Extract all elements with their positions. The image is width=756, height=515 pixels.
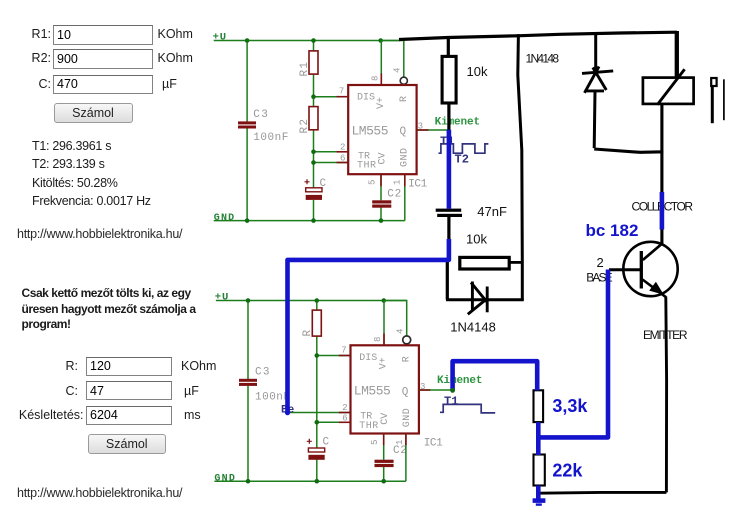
resistor 3.3k body	[534, 390, 544, 422]
input R1 value 10	[53, 25, 153, 45]
svg-text:GND: GND	[400, 148, 411, 167]
label R2	[0, 51, 51, 65]
svg-text:100nF: 100nF	[253, 132, 288, 144]
wire blue node to Be (long trigger wire)	[288, 239, 449, 412]
svg-text:7: 7	[339, 87, 344, 97]
wire +U rail (top circuit)	[214, 40, 400, 42]
input delay value 6204	[86, 406, 172, 425]
junction dot C2-gnd	[379, 218, 384, 223]
resistor R1	[309, 51, 318, 74]
label C	[0, 77, 51, 91]
wire GND rail (top circuit)	[214, 220, 405, 222]
svg-text:LM555: LM555	[352, 124, 389, 139]
relay switch diagonal	[657, 69, 684, 104]
svg-text:C2: C2	[393, 445, 407, 457]
wire pin3 Q output (bottom)	[419, 389, 453, 391]
wire pin4 R with stub (bottom)	[384, 301, 407, 337]
svg-text:GND: GND	[214, 213, 235, 224]
resistor 10k upper	[442, 56, 456, 103]
junction dot R1-R2-DIS	[311, 94, 316, 99]
url 2	[17, 486, 182, 500]
svg-text:5: 5	[370, 440, 380, 445]
svg-text:R1: R1	[299, 62, 311, 77]
wire pin6 THR (bottom)	[317, 421, 351, 423]
junction dot rail-pin8	[378, 38, 383, 43]
capacitor C2 (top)	[372, 200, 391, 207]
wire pin5 CV to C2	[380, 175, 382, 221]
svg-text:7: 7	[341, 346, 346, 356]
resistor 22k body	[534, 455, 545, 486]
wire pin7 DIS (bottom)	[317, 355, 351, 357]
svg-text:CV: CV	[380, 413, 391, 425]
diode D1 1N4148 (freewheel, sketchy)	[582, 67, 613, 93]
svg-text:V+: V+	[378, 357, 389, 369]
junction dot rail-C3	[245, 38, 250, 43]
transistor Q1 circle	[623, 242, 677, 296]
svg-text:DIS: DIS	[357, 93, 375, 104]
wire blue Q1-output to 47nF	[447, 130, 452, 209]
button Szamol 1	[54, 103, 133, 123]
wire pin1 GND down (bottom)	[405, 433, 407, 481]
wire pin2 TR (bottom) from Be	[287, 412, 350, 414]
svg-text:THR: THR	[357, 161, 376, 172]
wire base lead	[609, 268, 641, 271]
svg-text:C: C	[320, 178, 327, 190]
pin4 inversion bubble (top)	[400, 77, 407, 84]
junction dot THR (bottom)	[315, 420, 320, 425]
svg-text:2: 2	[597, 255, 604, 270]
svg-text:C2: C2	[387, 188, 401, 200]
IC pin stubs (maroon) top IC	[337, 74, 429, 187]
svg-text:EMITTER: EMITTER	[643, 328, 688, 342]
resistor R2	[309, 107, 318, 130]
junction dot rail-R1	[311, 38, 316, 43]
unit KOhm	[181, 359, 216, 373]
svg-text:+U: +U	[213, 32, 227, 44]
diode D2 1N4148 (lower, sketchy)	[468, 282, 487, 315]
IC pin stubs (maroon) bottom IC	[339, 334, 430, 446]
svg-text:Kimenet: Kimenet	[435, 117, 481, 129]
wire GND rail (bottom circuit)	[214, 480, 406, 482]
wire pin8 V+	[380, 41, 382, 86]
svg-text:T2: T2	[455, 152, 469, 166]
input R2 value 900	[53, 49, 153, 69]
svg-text:R: R	[399, 96, 410, 102]
svg-text:C3: C3	[255, 367, 270, 379]
wire pin4 R with stub	[381, 41, 404, 78]
label Kesleltetes	[0, 408, 84, 422]
IC2 texts	[354, 353, 413, 432]
svg-text:CV: CV	[378, 153, 389, 165]
wire collector diagonal into transistor	[643, 244, 662, 261]
wire diode1 bottom lead	[593, 91, 597, 148]
svg-text:22k: 22k	[552, 461, 583, 481]
transistor emitter arrow	[649, 282, 664, 295]
op-amp style IC box U2 LM555 (bottom)	[351, 345, 419, 433]
svg-text:1: 1	[393, 180, 403, 185]
wire blue bottom Q to 3.3k	[453, 361, 538, 390]
wire blue 22k to ground	[536, 486, 541, 501]
svg-text:DIS: DIS	[359, 353, 377, 364]
svg-text:4: 4	[395, 329, 405, 334]
svg-text:THR: THR	[359, 421, 378, 432]
resistor 10k lower (horizontal)	[460, 257, 509, 269]
capacitor C3 (bottom)	[239, 379, 257, 386]
url 1	[17, 227, 182, 241]
svg-text:10k: 10k	[466, 232, 487, 247]
capacitor C electrolytic (bottom)	[307, 439, 325, 460]
svg-text:C3: C3	[253, 109, 267, 121]
unit ms	[184, 408, 201, 422]
svg-text:R: R	[302, 330, 314, 337]
op-amp style IC box U1 LM555 (top)	[348, 85, 416, 174]
wire C3 branch vertical (bottom)	[247, 301, 249, 482]
wire blue collector segment	[660, 192, 665, 230]
svg-text:IC1: IC1	[424, 438, 443, 450]
result T2	[32, 157, 105, 171]
wire blue 3.3k-22k segment	[536, 437, 541, 455]
wire pin8 V+ (bottom)	[383, 301, 385, 346]
unit µF	[162, 77, 177, 91]
svg-text:8: 8	[373, 337, 383, 342]
wire blue 3.3k to 22k and to base	[538, 270, 608, 438]
wire pin3 Q output	[417, 129, 448, 131]
svg-text:Kimenet: Kimenet	[437, 375, 483, 387]
junction dot C3-gnd	[245, 218, 250, 223]
svg-text:GND: GND	[402, 408, 413, 427]
svg-text:3,3k: 3,3k	[552, 396, 588, 416]
wire relay to collector (black upper)	[660, 104, 663, 193]
svg-text:GND: GND	[214, 473, 235, 484]
svg-text:bc 182: bc 182	[586, 221, 639, 240]
wire R chain vertical (bottom)	[316, 301, 318, 482]
svg-text:10k: 10k	[467, 64, 488, 79]
svg-text:8: 8	[371, 76, 381, 81]
capacitor C electrolytic (top)	[305, 179, 323, 200]
junction dot C-gnd	[311, 218, 316, 223]
pin4 inversion bubble (bottom)	[403, 336, 411, 344]
wire emitter vertical	[664, 297, 668, 493]
input R value 120	[86, 357, 172, 377]
wire pin6 THR	[314, 162, 349, 164]
svg-text:Q: Q	[402, 386, 409, 398]
relay contact symbol P-mark	[711, 78, 724, 123]
wire pin2 TR	[314, 151, 349, 153]
wire pin5 CV to C2 (bottom)	[383, 433, 385, 481]
wire diode1 top lead	[594, 33, 597, 73]
transistor emitter diagonal	[643, 280, 667, 298]
Be wire end dot	[285, 410, 290, 415]
junction dot DIS (bottom)	[315, 353, 320, 358]
waveform square wave T1 (bottom output)	[440, 404, 495, 413]
svg-text:IC1: IC1	[408, 179, 427, 191]
wire top power rail black	[399, 32, 677, 39]
svg-text:47nF: 47nF	[477, 204, 507, 219]
unit µF	[184, 384, 199, 398]
wire pin1 GND down	[404, 175, 406, 221]
wire collector black lower	[660, 229, 663, 245]
wire diode loop bottom horizontal	[594, 149, 663, 152]
junction dot TR	[311, 150, 316, 155]
wire C3 branch vertical	[246, 41, 248, 221]
unit KOhm	[158, 27, 193, 41]
wire R1/R2 chain vertical	[313, 41, 315, 221]
svg-text:100nF: 100nF	[255, 392, 290, 404]
wire pin7 DIS	[314, 96, 349, 98]
svg-text:Q: Q	[400, 126, 407, 138]
svg-text:1N4148: 1N4148	[450, 320, 496, 335]
input C value 47	[86, 381, 172, 401]
junction dot THR	[311, 160, 316, 165]
wire 47nF to node (black part)	[447, 217, 450, 239]
note paragraph	[22, 286, 218, 333]
svg-text:V+: V+	[376, 97, 387, 109]
svg-text:C: C	[323, 437, 330, 449]
svg-text:4: 4	[393, 68, 403, 73]
result Kitoltes	[32, 176, 118, 190]
label C	[0, 384, 78, 398]
result T1	[32, 139, 111, 153]
button Szamol 2	[88, 434, 167, 454]
capacitor 47nF	[436, 209, 462, 217]
svg-text:LM555: LM555	[354, 384, 391, 399]
svg-text:1N4148: 1N4148	[526, 52, 560, 66]
label R1	[0, 27, 51, 41]
wire emitter bottom horizontal to divider	[538, 491, 666, 495]
capacitor C3 (top)	[238, 121, 256, 128]
IC1 top texts	[352, 93, 411, 172]
waveform square wave T2 (top output)	[439, 144, 489, 153]
label R	[0, 359, 78, 373]
junction dot Q output (green over blue)	[450, 388, 455, 393]
input C value 470	[53, 75, 153, 94]
transistor base bar	[640, 251, 643, 289]
resistor R (bottom)	[312, 310, 321, 336]
wire +U rail (bottom circuit)	[216, 300, 407, 302]
wire diode loop left vertical	[446, 258, 449, 300]
junction dots GND rail (bottom)	[246, 479, 251, 484]
wire 10k to 47nF (black part)	[447, 103, 450, 131]
wire lead to resistor 10k upper	[447, 36, 450, 57]
wire diode loop bottom	[446, 298, 524, 301]
wire 10k lower right lead	[509, 261, 522, 264]
result Frekvencia	[32, 194, 151, 208]
wire long vertical from rail to R/diode pair	[518, 34, 523, 300]
svg-text:R: R	[401, 356, 412, 362]
wire rail to relay	[675, 31, 679, 79]
svg-text:T1: T1	[444, 395, 458, 409]
unit KOhm	[158, 51, 193, 65]
svg-text:R2: R2	[299, 119, 311, 134]
svg-text:5: 5	[368, 180, 378, 185]
svg-text:+U: +U	[215, 292, 229, 304]
relay K1	[643, 78, 694, 104]
ground (blue)	[533, 498, 546, 503]
capacitor C2 (bottom)	[375, 460, 394, 467]
junction dots top rail (bottom circuit)	[246, 298, 251, 303]
